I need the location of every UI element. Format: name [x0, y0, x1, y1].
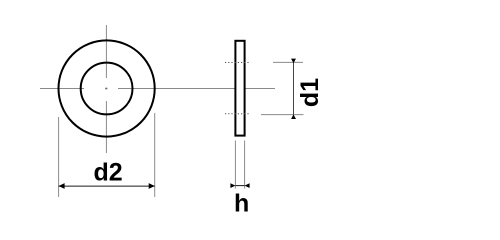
d2 arrowhead right: [149, 183, 155, 189]
d1 arrowhead bottom: [291, 114, 296, 119]
d2 arrowhead left: [59, 183, 65, 189]
hidden line top (hole edge): [225, 62, 251, 64]
svg-text:d1: d1: [296, 78, 324, 107]
d1 extension line bottom: [261, 114, 304, 116]
d1 extension line top: [273, 61, 303, 63]
hidden line bottom (hole edge): [225, 113, 251, 115]
horizontal center line (left segment): [40, 88, 84, 90]
washer inner hole circle: [81, 63, 133, 115]
d2 extension line right: [154, 113, 156, 197]
h extension line right: [244, 141, 246, 189]
d1 arrowhead top: [291, 59, 296, 64]
svg-text:d2: d2: [94, 159, 123, 187]
h arrowhead left (outside, pointing right): [230, 183, 235, 188]
vertical center line (top segment): [105, 25, 107, 78]
h extension line left: [234, 141, 236, 189]
vertical center line (bottom segment): [105, 101, 107, 153]
center mark dash: [105, 88, 107, 90]
d2 extension line left: [58, 117, 60, 197]
washer outer circle (front view): [59, 40, 155, 136]
h dimension line: [235, 185, 244, 187]
d2 dimension line: [59, 185, 155, 187]
d1 dimension line: [293, 62, 295, 114]
side view washer outline rectangle: [235, 41, 244, 136]
h arrowhead right (outside, pointing left): [245, 183, 250, 188]
svg-text:h: h: [234, 190, 249, 218]
horizontal center line (right segment through side view): [118, 88, 275, 90]
